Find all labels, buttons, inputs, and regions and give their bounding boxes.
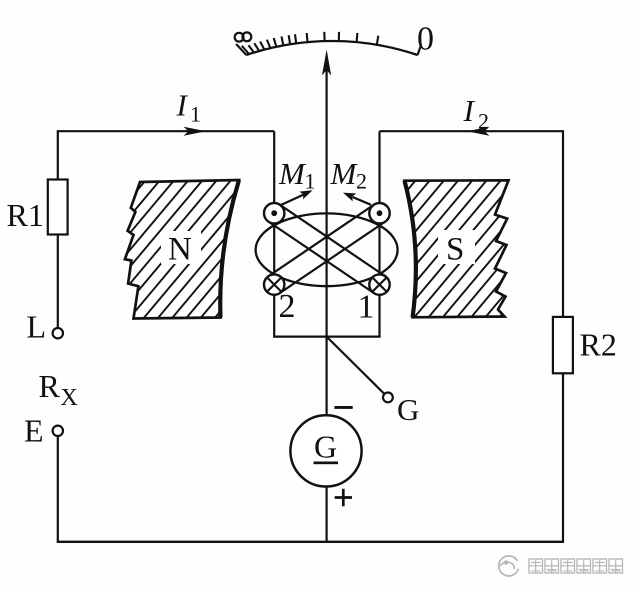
coil 2 loop sides (top-right to bottom-left) xyxy=(269,205,386,293)
svg-text:E: E xyxy=(24,413,44,449)
wire: terminal E down to bottom rail xyxy=(57,436,59,542)
svg-text:M: M xyxy=(278,156,307,191)
svg-text:G: G xyxy=(314,428,337,464)
current arrow I1 xyxy=(184,127,207,136)
resistor R2 xyxy=(553,317,573,373)
torque arrow M2 xyxy=(353,197,372,205)
svg-text:R2: R2 xyxy=(580,327,617,363)
coil 1 loop sides (top-left to bottom-right) xyxy=(269,205,386,293)
generator G xyxy=(290,415,361,486)
svg-text:1: 1 xyxy=(190,102,201,127)
watermark logo and text xyxy=(499,556,623,576)
meter needle pointer xyxy=(322,50,331,76)
coil wire end 2 (current in, cross) xyxy=(264,274,284,294)
wire: R2 down to bottom rail xyxy=(562,373,564,542)
wire: right coil lead vertical xyxy=(378,131,380,336)
svg-text:2: 2 xyxy=(279,288,296,325)
svg-text:L: L xyxy=(27,309,47,345)
wire: left coil lead vertical xyxy=(273,131,275,336)
wire: bottom frame of coil leads xyxy=(273,336,381,338)
svg-text:I: I xyxy=(176,87,189,122)
infinity label xyxy=(235,32,252,41)
pole face N (thick concave edge) xyxy=(220,180,239,318)
wire: R1 to terminal L xyxy=(57,235,59,329)
torque arrow M1 xyxy=(281,195,304,205)
svg-text:I: I xyxy=(463,93,476,128)
current arrow I2 xyxy=(467,127,490,136)
meter scale arc xyxy=(246,41,417,55)
pole face S (thick concave edge) xyxy=(405,181,416,318)
scale tick marks xyxy=(236,32,420,55)
coil wire end 1 (current in, cross) xyxy=(369,274,389,294)
minus polarity mark xyxy=(335,406,353,409)
plus polarity mark xyxy=(335,489,352,506)
wire: bottom rail xyxy=(57,541,564,543)
svg-text:0: 0 xyxy=(417,20,434,57)
svg-text:R: R xyxy=(39,368,61,404)
svg-text:M: M xyxy=(330,156,359,191)
coil 2 wire end (current out, dot) xyxy=(369,203,389,223)
coil former ellipse xyxy=(256,213,398,286)
svg-text:G: G xyxy=(397,392,419,427)
svg-text:2: 2 xyxy=(356,169,367,194)
svg-text:1: 1 xyxy=(358,289,375,326)
coil 1 wire end (current out, dot) xyxy=(264,203,284,223)
svg-text:S: S xyxy=(446,232,464,268)
terminal E circle xyxy=(53,426,63,436)
wire: generator to bottom rail xyxy=(326,486,328,541)
terminal G circle xyxy=(383,393,393,403)
svg-text:X: X xyxy=(61,385,78,411)
terminal L circle xyxy=(53,328,63,338)
svg-text:N: N xyxy=(168,232,192,268)
svg-text:2: 2 xyxy=(478,109,489,134)
wire: top-left horizontal I1 branch xyxy=(58,131,274,179)
svg-text:R1: R1 xyxy=(7,197,44,233)
svg-text:1: 1 xyxy=(305,169,316,194)
resistor R1 xyxy=(48,180,68,235)
wire: switch lead to terminal G xyxy=(327,337,385,394)
wire: top-right horizontal I2 branch xyxy=(380,131,564,317)
